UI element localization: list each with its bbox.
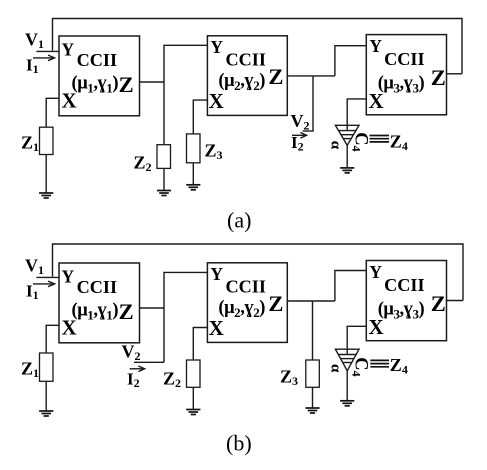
wire: Z output stub of U3b [447, 300, 464, 302]
svg-text:Z4: Z4 [390, 132, 408, 154]
wire: V2 open terminal stub (a) [303, 130, 314, 132]
label Z2 (b) [163, 369, 181, 391]
label Z3 (b) [280, 367, 298, 389]
current arrow I1 (a) [33, 55, 55, 61]
svg-text:(μ2,ɣ2): (μ2,ɣ2) [218, 71, 265, 93]
svg-text:Y: Y [62, 39, 75, 59]
svg-text:C4: C4 [350, 132, 371, 151]
wire: X of U2a down to Z3 (a) [193, 100, 207, 134]
svg-text:X: X [369, 89, 384, 113]
svg-text:CCII: CCII [384, 49, 424, 69]
ground below Z1 (b) [39, 411, 53, 416]
label I1 (a) [26, 56, 39, 77]
wire: riser up to Y of U3 (a) [335, 46, 366, 76]
svg-text:X: X [62, 316, 77, 340]
ground below C4 (a) [340, 168, 354, 173]
wire: Z2 to ground (a) [163, 168, 165, 190]
label I2 (b) [127, 370, 140, 391]
svg-text:Z2: Z2 [134, 153, 152, 175]
svg-text:CCII: CCII [384, 275, 424, 295]
current arrow I2 (a) [292, 133, 307, 139]
label Z3 (a) [205, 141, 223, 163]
svg-text:X: X [209, 316, 224, 340]
impedance Z2 (b) [187, 360, 201, 387]
label C4 (b) [350, 357, 371, 376]
wire: X of U1a down to Z1 (a) [46, 98, 59, 127]
svg-text:(μ1,ɣ1): (μ1,ɣ1) [72, 301, 119, 323]
wire: X of U3a down to C4 (a) [347, 99, 366, 125]
svg-text:I2: I2 [291, 133, 304, 154]
wire: node up to Y of U2 (b) [164, 272, 207, 308]
label Z4 (a) [390, 132, 408, 154]
wire: X of U1b down to Z1 (b) [46, 325, 59, 353]
label Z2 (a) [134, 153, 152, 175]
wire: V2 tap down (a) [312, 76, 314, 131]
wire: Z3 to ground (a) [192, 163, 194, 185]
wire: X of U3b down to C4 (b) [347, 326, 366, 349]
svg-text:X: X [62, 89, 77, 113]
svg-text:Z1: Z1 [21, 359, 39, 381]
svg-text:Z2: Z2 [163, 369, 181, 391]
svg-text:Z: Z [119, 299, 134, 324]
wire: Z of U1b to node (b) [140, 307, 165, 309]
svg-text:CCII: CCII [77, 50, 117, 70]
svg-text:V2: V2 [291, 111, 310, 133]
svg-text:Z3: Z3 [280, 367, 298, 389]
ground below Z2 (b) [186, 410, 200, 415]
svg-text:V1: V1 [25, 30, 44, 52]
wire: node up to Y of U2 (a) [164, 45, 207, 82]
svg-text:α: α [328, 141, 344, 150]
ground below Z3 (a) [186, 185, 200, 190]
label I2 (a) [291, 133, 304, 154]
label Z1 (a) [21, 133, 39, 155]
svg-text:Y: Y [210, 264, 223, 284]
wire: Z3 to ground (b) [312, 387, 314, 408]
svg-text:Y: Y [62, 266, 75, 286]
svg-text:X: X [209, 89, 224, 113]
label alpha (b) [328, 364, 344, 373]
CCII block U3 (b) [366, 261, 446, 341]
impedance Z1 (a) [40, 127, 54, 154]
caption (b) [226, 431, 252, 456]
svg-text:V2: V2 [122, 342, 141, 364]
wire: node down to V2 terminal (b) [163, 308, 165, 362]
impedance Z3 (a) [187, 134, 201, 163]
svg-text:C4: C4 [350, 357, 371, 376]
svg-text:(b): (b) [226, 431, 252, 456]
label V1 (a) [25, 30, 44, 52]
svg-text:(μ3,ɣ3): (μ3,ɣ3) [378, 74, 425, 96]
ground below Z3 (b) [305, 408, 319, 413]
wire: Z of U1a to node (a) [140, 81, 165, 83]
fractional capacitor C4 (b) [335, 349, 359, 371]
wire: C4 to ground (b) [346, 371, 348, 401]
svg-text:Y: Y [369, 262, 382, 282]
svg-text:Z3: Z3 [205, 141, 223, 163]
fractional capacitor C4 (a) [335, 125, 359, 145]
ground below C4 (b) [340, 401, 354, 406]
svg-text:Z1: Z1 [21, 133, 39, 155]
wire: X of U2b down to Z2 (b) [193, 328, 207, 361]
impedance Z3 (b) [306, 360, 320, 387]
wire: Z2 to ground (b) [192, 387, 194, 409]
svg-text:(μ1,ɣ1): (μ1,ɣ1) [72, 74, 119, 96]
CCII block U2 (a) [207, 36, 287, 116]
wire: feedback loop top (b) from Z of U3b to Y input node [53, 244, 464, 301]
CCII block U1 (b) [59, 263, 140, 343]
equivalence sign (b) [370, 360, 389, 366]
svg-text:Y: Y [210, 37, 223, 57]
wire: feedback loop top (a) from Z of U3a to Y input node [53, 19, 463, 74]
label Z4 (b) [390, 355, 408, 377]
wire: riser up to Y of U3 (b) [335, 271, 366, 302]
svg-text:I2: I2 [127, 370, 140, 391]
impedance Z2 (a) [157, 145, 171, 169]
svg-text:α: α [328, 364, 344, 373]
svg-text:(μ2,ɣ2): (μ2,ɣ2) [218, 298, 265, 320]
CCII block U2 (b) [207, 263, 287, 343]
label I1 (b) [26, 282, 39, 303]
ground below Z2 (a) [157, 191, 171, 196]
wire: Z1 to ground (b) [45, 381, 47, 411]
svg-text:Z: Z [431, 291, 446, 316]
wire: tap down to Z3 (b) [312, 301, 314, 360]
caption (a) [227, 208, 251, 233]
equivalence sign (a) [370, 136, 390, 142]
CCII block U1 (a) [59, 36, 140, 116]
svg-text:V1: V1 [25, 256, 44, 278]
wire: V2 open terminal stub (b) [134, 361, 164, 363]
label C4 (a) [350, 132, 371, 151]
svg-text:(a): (a) [227, 208, 251, 233]
svg-text:Z: Z [431, 65, 446, 90]
wire: V1 input lead (a) [36, 50, 59, 52]
wire: C4 to ground (a) [346, 145, 348, 168]
label alpha (a) [328, 141, 344, 150]
current arrow I1 (b) [33, 281, 55, 287]
svg-text:CCII: CCII [226, 49, 266, 69]
label V2 (b) [122, 342, 141, 364]
svg-text:Z: Z [268, 291, 283, 316]
current arrow I2 (b) [130, 366, 145, 372]
label V2 (a) [291, 111, 310, 133]
ground below Z1 (a) [39, 193, 53, 198]
label V1 (b) [25, 256, 44, 278]
impedance Z1 (b) [40, 353, 54, 381]
svg-text:CCII: CCII [226, 276, 266, 296]
wire: Z output stub of U3a [447, 73, 463, 75]
wire: node down to Z2 (a) [163, 82, 165, 145]
wire: V1 input lead (b) [36, 276, 59, 278]
svg-text:(μ3,ɣ3): (μ3,ɣ3) [378, 300, 425, 322]
svg-text:Y: Y [369, 36, 382, 56]
svg-text:X: X [369, 315, 384, 339]
label Z1 (b) [21, 359, 39, 381]
svg-text:Z: Z [268, 64, 283, 89]
svg-text:Z4: Z4 [390, 355, 408, 377]
wire: Z of U2a to riser (a) [287, 75, 335, 77]
CCII block U3 (a) [366, 35, 446, 115]
wire: Z1 to ground (a) [45, 155, 47, 194]
svg-text:CCII: CCII [77, 277, 117, 297]
wire: Z of U2b to riser (b) [287, 300, 335, 302]
svg-text:Z: Z [119, 72, 134, 97]
